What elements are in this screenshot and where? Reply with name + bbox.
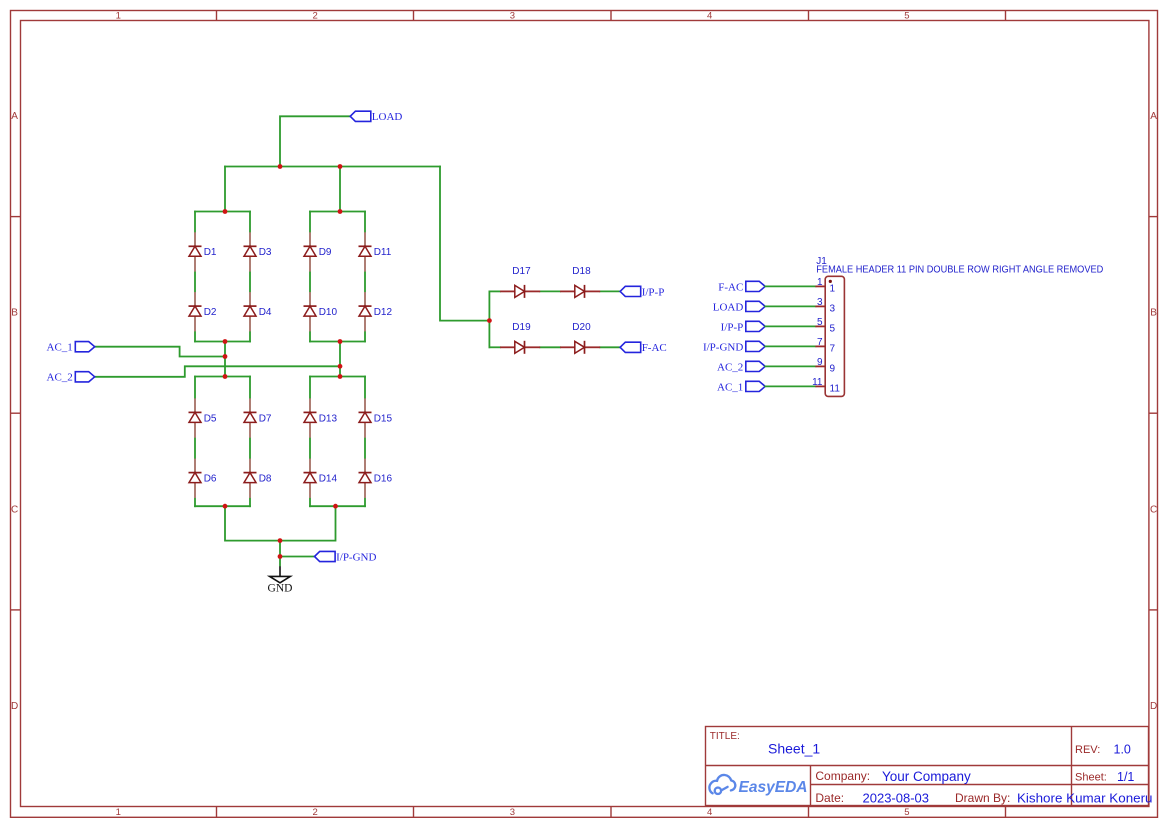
pin 5 of J1 bbox=[815, 317, 835, 335]
svg-text:7: 7 bbox=[830, 344, 836, 355]
wire mid vertical left bbox=[224, 342, 226, 377]
svg-text:AC_2: AC_2 bbox=[717, 361, 743, 373]
diode D20 bbox=[560, 322, 600, 354]
svg-text:REV:: REV: bbox=[1075, 744, 1100, 756]
pin 9 of J1 bbox=[815, 357, 835, 375]
net flag I/P-GND at ground bbox=[315, 551, 377, 563]
svg-text:AC_1: AC_1 bbox=[47, 342, 73, 354]
svg-text:Your Company: Your Company bbox=[882, 769, 971, 784]
net flag I/P-GND at J1 pin 7 bbox=[703, 341, 765, 353]
wire column D13-D14 bbox=[309, 377, 311, 507]
net flag AC_2 input bbox=[47, 372, 95, 384]
svg-text:D5: D5 bbox=[204, 413, 217, 424]
diode D6 bbox=[189, 459, 217, 498]
wire F-AC flag to J1 pin 1 bbox=[765, 285, 815, 287]
wire LOAD flag to J1 pin 3 bbox=[765, 305, 815, 307]
wire I/P-GND flag to J1 pin 7 bbox=[765, 345, 815, 347]
junction AC_2 node bbox=[338, 364, 343, 369]
connector J1 body bbox=[825, 276, 844, 396]
wire D19 to D20 bbox=[540, 346, 560, 348]
svg-text:1.0: 1.0 bbox=[1114, 743, 1131, 757]
svg-text:1/1: 1/1 bbox=[1117, 770, 1134, 784]
net flag AC_2 at J1 pin 9 bbox=[717, 361, 765, 373]
svg-text:3: 3 bbox=[510, 10, 515, 21]
wire ground bus U bbox=[225, 506, 336, 540]
svg-text:D1: D1 bbox=[204, 247, 217, 258]
svg-text:D6: D6 bbox=[204, 474, 217, 485]
wire top bus to D17/D19 feed bbox=[440, 167, 489, 321]
junction ground bus tap bbox=[278, 538, 283, 543]
svg-text:Sheet_1: Sheet_1 bbox=[768, 741, 820, 757]
svg-text:D10: D10 bbox=[319, 307, 338, 318]
wire lower-right bridge top rail bbox=[310, 376, 365, 378]
junction lower-left bridge bottom bbox=[223, 504, 228, 509]
diode D2 bbox=[189, 292, 217, 331]
wire AC_1 flag to J1 pin 11 bbox=[765, 385, 815, 387]
junction D17/D19 feed bbox=[487, 318, 492, 323]
title block outline bbox=[706, 727, 1149, 806]
diode D17 bbox=[500, 266, 540, 298]
junction upper-left bridge bottom bbox=[223, 339, 228, 344]
diode D8 bbox=[244, 459, 272, 498]
wire LOAD flag to top bus bbox=[280, 116, 350, 166]
svg-text:D19: D19 bbox=[512, 322, 531, 333]
wire lower-right bridge bottom rail bbox=[310, 505, 365, 507]
diode D15 bbox=[359, 398, 393, 437]
svg-text:D2: D2 bbox=[204, 307, 217, 318]
frame row letters right bbox=[1150, 111, 1157, 712]
svg-text:1: 1 bbox=[116, 807, 121, 818]
wire lower-left bridge top rail bbox=[195, 376, 250, 378]
svg-text:TITLE:: TITLE: bbox=[710, 731, 740, 742]
svg-text:A: A bbox=[1150, 111, 1157, 122]
diode D9 bbox=[304, 232, 332, 271]
junction top bus/right drop bbox=[338, 164, 343, 169]
junction upper-right bridge bottom bbox=[338, 339, 343, 344]
wire upper-right bridge top rail bbox=[310, 211, 365, 213]
wire lower-left bridge bottom rail bbox=[195, 505, 250, 507]
wire column D5-D6 bbox=[194, 377, 196, 507]
svg-text:D17: D17 bbox=[512, 266, 531, 277]
wire D20 to F-AC flag bbox=[600, 346, 620, 348]
svg-text:1: 1 bbox=[116, 10, 121, 21]
svg-text:D20: D20 bbox=[572, 322, 591, 333]
svg-text:FEMALE HEADER 11 PIN DOUBLE RO: FEMALE HEADER 11 PIN DOUBLE ROW RIGHT AN… bbox=[816, 264, 1103, 275]
wire top bus drop to right bridge bbox=[339, 167, 341, 212]
net flag LOAD at J1 pin 3 bbox=[713, 301, 765, 313]
diode D16 bbox=[359, 459, 393, 498]
pin 11 of J1 bbox=[812, 377, 840, 395]
svg-text:D15: D15 bbox=[374, 413, 393, 424]
diode D19 bbox=[500, 322, 540, 354]
wire column D9-D10 bbox=[309, 212, 311, 342]
wire D17/D19 feed vertical bbox=[488, 291, 490, 347]
wire mid vertical right bbox=[339, 342, 341, 377]
junction I/P-GND node bbox=[278, 554, 283, 559]
svg-text:F-AC: F-AC bbox=[642, 342, 667, 354]
junction AC_1 node bbox=[223, 354, 228, 359]
wire ground tap down bbox=[279, 541, 281, 567]
svg-text:LOAD: LOAD bbox=[372, 111, 403, 123]
svg-text:B: B bbox=[1150, 308, 1157, 319]
diode D4 bbox=[244, 292, 272, 331]
net flag I/P-P output bbox=[620, 286, 664, 298]
diode D12 bbox=[359, 292, 393, 331]
svg-text:B: B bbox=[11, 308, 18, 319]
diode D14 bbox=[304, 459, 338, 498]
svg-text:D18: D18 bbox=[572, 266, 591, 277]
svg-text:7: 7 bbox=[817, 337, 823, 348]
pin 7 of J1 bbox=[815, 337, 835, 355]
svg-text:C: C bbox=[11, 504, 18, 515]
wire AC_1 to left bridges bbox=[95, 347, 225, 357]
svg-text:2: 2 bbox=[312, 807, 317, 818]
junction lower-right bridge top bbox=[338, 374, 343, 379]
svg-text:Sheet:: Sheet: bbox=[1075, 772, 1107, 784]
ground GND symbol bbox=[268, 566, 293, 594]
svg-text:5: 5 bbox=[904, 10, 909, 21]
wire top bus horizontal bbox=[225, 166, 440, 168]
svg-text:AC_2: AC_2 bbox=[47, 372, 73, 384]
svg-text:D11: D11 bbox=[374, 247, 392, 258]
svg-text:GND: GND bbox=[268, 583, 293, 595]
svg-text:D8: D8 bbox=[259, 474, 272, 485]
svg-text:D13: D13 bbox=[319, 413, 338, 424]
svg-text:A: A bbox=[11, 111, 18, 122]
svg-text:11: 11 bbox=[812, 377, 823, 388]
svg-text:C: C bbox=[1150, 504, 1157, 515]
svg-text:1: 1 bbox=[817, 277, 823, 288]
diode D5 bbox=[189, 398, 217, 437]
net flag AC_1 at J1 pin 11 bbox=[717, 381, 765, 393]
frame row ticks right bbox=[1149, 217, 1158, 610]
net flag F-AC at J1 pin 1 bbox=[718, 281, 765, 293]
junction lower-left bridge top bbox=[223, 374, 228, 379]
wire upper-left bridge bottom rail bbox=[195, 341, 250, 343]
svg-text:D9: D9 bbox=[319, 247, 332, 258]
connector J1 pin-1 marker dot bbox=[829, 280, 832, 283]
wire feed to D17 bbox=[489, 290, 500, 292]
wire upper-left bridge top rail bbox=[195, 211, 250, 213]
svg-text:D14: D14 bbox=[319, 474, 338, 485]
wire to I/P-GND flag bbox=[280, 556, 315, 558]
diode D10 bbox=[304, 292, 338, 331]
svg-text:9: 9 bbox=[817, 357, 823, 368]
junction upper-left bridge top bbox=[223, 209, 228, 214]
frame column numbers top bbox=[116, 10, 910, 21]
svg-text:3: 3 bbox=[817, 297, 823, 308]
svg-text:AC_1: AC_1 bbox=[717, 381, 743, 393]
frame row letters left bbox=[11, 111, 18, 712]
wire D17 to D18 bbox=[540, 290, 560, 292]
svg-text:3: 3 bbox=[510, 807, 515, 818]
svg-text:D16: D16 bbox=[374, 474, 393, 485]
svg-text:Company:: Company: bbox=[815, 769, 870, 783]
frame row ticks left bbox=[10, 217, 20, 610]
svg-text:Date:: Date: bbox=[815, 791, 844, 805]
svg-text:5: 5 bbox=[904, 807, 909, 818]
junction LOAD/top bus bbox=[278, 164, 283, 169]
wire column D15-D16 bbox=[364, 377, 366, 507]
svg-text:5: 5 bbox=[817, 317, 823, 328]
svg-text:4: 4 bbox=[707, 807, 712, 818]
svg-text:2023-08-03: 2023-08-03 bbox=[863, 790, 930, 805]
diode D18 bbox=[560, 266, 600, 298]
net flag I/P-P at J1 pin 5 bbox=[721, 321, 766, 333]
frame column ticks top bbox=[217, 10, 1006, 20]
svg-text:I/P-P: I/P-P bbox=[721, 321, 744, 333]
wire AC_2 flag to J1 pin 9 bbox=[765, 365, 815, 367]
svg-text:D: D bbox=[11, 701, 18, 712]
diode D7 bbox=[244, 398, 272, 437]
wire D18 to I/P-P flag bbox=[600, 290, 620, 292]
diode D11 bbox=[359, 232, 392, 271]
svg-text:F-AC: F-AC bbox=[718, 281, 743, 293]
junction lower-right bridge bottom bbox=[333, 504, 338, 509]
svg-text:D3: D3 bbox=[259, 247, 272, 258]
wire upper-right bridge bottom rail bbox=[310, 341, 365, 343]
svg-text:EasyEDA: EasyEDA bbox=[739, 779, 808, 796]
wire top bus drop to left bridge bbox=[224, 167, 226, 212]
EasyEDA logo cloud icon bbox=[709, 775, 735, 794]
wire column D11-D12 bbox=[364, 212, 366, 342]
net flag AC_1 input bbox=[47, 342, 95, 354]
svg-text:I/P-GND: I/P-GND bbox=[703, 341, 743, 353]
wire feed to D19 bbox=[489, 346, 500, 348]
wire column D7-D8 bbox=[249, 377, 251, 507]
net flag F-AC output bbox=[620, 342, 667, 354]
svg-text:D4: D4 bbox=[259, 307, 272, 318]
svg-text:LOAD: LOAD bbox=[713, 301, 744, 313]
svg-text:I/P-GND: I/P-GND bbox=[336, 551, 376, 563]
svg-text:D12: D12 bbox=[374, 307, 393, 318]
svg-text:Kishore Kumar Koneru: Kishore Kumar Koneru bbox=[1017, 790, 1153, 805]
frame column ticks bottom bbox=[217, 807, 1006, 818]
svg-text:11: 11 bbox=[830, 384, 841, 395]
svg-text:2: 2 bbox=[312, 10, 317, 21]
pin 3 of J1 bbox=[815, 297, 835, 315]
diode D13 bbox=[304, 398, 338, 437]
svg-text:D: D bbox=[1150, 701, 1157, 712]
net flag LOAD at bridge bbox=[350, 111, 402, 123]
wire AC_2 to right bridges bbox=[95, 366, 340, 377]
svg-text:I/P-P: I/P-P bbox=[642, 286, 665, 298]
svg-text:1: 1 bbox=[830, 284, 836, 295]
junction upper-right bridge top bbox=[338, 209, 343, 214]
svg-text:D7: D7 bbox=[259, 413, 272, 424]
svg-text:3: 3 bbox=[830, 304, 836, 315]
diode D3 bbox=[244, 232, 272, 271]
wire I/P-P flag to J1 pin 5 bbox=[765, 325, 815, 327]
svg-text:9: 9 bbox=[830, 364, 836, 375]
svg-text:4: 4 bbox=[707, 10, 712, 21]
pin 1 of J1 bbox=[815, 277, 835, 295]
svg-text:Drawn By:: Drawn By: bbox=[955, 791, 1010, 805]
frame column numbers bottom bbox=[116, 807, 910, 818]
wire column D1-D2 bbox=[194, 212, 196, 342]
svg-text:5: 5 bbox=[830, 324, 836, 335]
wire column D3-D4 bbox=[249, 212, 251, 342]
diode D1 bbox=[189, 232, 217, 271]
